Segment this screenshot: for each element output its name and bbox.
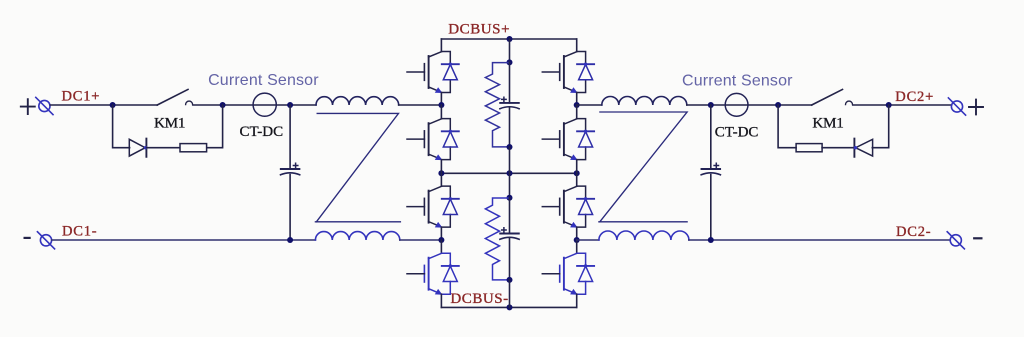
node J3 — [287, 102, 293, 108]
C2 polarity + — [502, 97, 506, 101]
svg-text:DC1-: DC1- — [62, 224, 97, 240]
precharge branch right: wire down from J20 — [778, 105, 796, 148]
capacitor C4 — [701, 169, 720, 175]
filter capacitor C1 branch wire — [289, 105, 291, 240]
Z symbol (right coupled inductor) — [599, 112, 687, 222]
svg-text:Current Sensor: Current Sensor — [682, 72, 793, 89]
svg-text:DC2+: DC2+ — [895, 89, 934, 105]
wire L1 to left leg — [399, 104, 442, 106]
inductor L1 (top left) — [316, 97, 399, 105]
svg-text:CT-DC: CT-DC — [240, 124, 284, 140]
svg-text:CT-DC: CT-DC — [715, 124, 759, 140]
wire DCBUS- rail — [441, 306, 576, 308]
wire right leg to L4 — [577, 239, 599, 241]
wire RC2 center upper — [509, 198, 511, 234]
node J16 — [574, 102, 580, 108]
terminal X1 DC1+ — [36, 97, 53, 114]
IGBT Q7 with anti-parallel diode — [542, 186, 594, 228]
inductor L4 (bottom right) — [599, 231, 689, 240]
wire mid rail to Q7 — [576, 173, 578, 186]
node J6 — [438, 170, 444, 176]
wire DCBUS+ rail — [441, 38, 576, 40]
svg-text:DC2-: DC2- — [896, 224, 931, 240]
switch KM1 right (main contact) — [812, 89, 853, 105]
node J5 — [507, 36, 513, 42]
node J15 — [507, 277, 513, 283]
IGBT Q2 with anti-parallel diode — [407, 119, 459, 161]
precharge branch: wire down from J1 — [113, 105, 130, 148]
terminal X2 DC1- — [37, 232, 54, 249]
wire L2 to left leg — [400, 239, 442, 241]
node J19 — [708, 237, 714, 243]
resistor R4 (precharge, box) — [796, 144, 822, 152]
terminal + sign (DC2+) — [969, 100, 983, 115]
terminal X4 DC2- — [947, 232, 964, 249]
IGBT Q1 with anti-parallel diode — [407, 52, 459, 94]
C4 polarity + — [714, 163, 718, 167]
capacitor C3 (bus bottom) — [500, 234, 519, 240]
wire mid rail to RC2 — [509, 173, 511, 198]
wire right leg to L3 — [577, 104, 602, 106]
svg-text:KM1: KM1 — [154, 115, 185, 132]
svg-text:Current Sensor: Current Sensor — [208, 72, 319, 89]
node J21 — [886, 102, 892, 108]
svg-text:DCBUS-: DCBUS- — [450, 291, 508, 307]
wire resistor up to J2 — [207, 105, 222, 148]
IGBT Q8 with anti-parallel diode — [542, 253, 594, 295]
node J4 — [287, 237, 293, 243]
wire DC1+ terminal to switch — [50, 104, 157, 106]
wire DC1- rail — [52, 239, 316, 241]
wire DCBUS+ to RC1 — [509, 39, 511, 62]
wire diode up to J21 — [872, 105, 888, 148]
capacitor C1 — [281, 169, 300, 175]
node J11 — [438, 237, 444, 243]
resistor R3 (bleeder, zigzag) — [485, 198, 509, 280]
wire RC1 center lower — [509, 108, 511, 148]
filter capacitor C4 branch wire — [710, 105, 712, 240]
terminal X3 DC2+ — [948, 98, 965, 115]
node J14 — [507, 195, 513, 201]
wire Q8 to DCBUS- rail — [576, 294, 578, 307]
wire Q1 to node — [440, 93, 442, 106]
inductor L2 (bottom left) — [315, 232, 399, 240]
wire RC2 center lower — [509, 238, 511, 280]
wire Q4 to DCBUS- rail — [440, 294, 442, 307]
resistor R2 (bleeder, zigzag) — [485, 63, 509, 147]
wire switch to DC2+ terminal — [853, 104, 952, 106]
switch KM1 (main contact) — [157, 89, 192, 105]
current sensor CT-DC (right) — [725, 93, 748, 116]
wire RC2 to DCBUS- rail — [509, 280, 511, 308]
wire L4 to DC2- terminal — [689, 239, 950, 241]
wire mid rail to Q3 — [440, 173, 442, 186]
terminal - sign (DC2-) — [974, 237, 981, 239]
wire Q3 to node — [440, 227, 442, 240]
resistor R1 (precharge, box) — [180, 144, 207, 152]
node J7 — [507, 170, 513, 176]
node J2 — [220, 102, 226, 108]
node J1 — [110, 102, 116, 108]
IGBT Q6 with anti-parallel diode — [542, 119, 594, 161]
wire switch to sensor — [193, 104, 316, 106]
wire Q6 to mid rail — [576, 160, 578, 174]
node J12 — [507, 59, 513, 65]
node J8 — [574, 170, 580, 176]
wire node to Q8 — [576, 240, 578, 253]
wire node to Q2 — [440, 105, 442, 119]
node J17 — [574, 237, 580, 243]
capacitor C2 (bus top) — [500, 103, 519, 109]
Z symbol (left coupled inductor) — [315, 113, 400, 221]
wire node to Q6 — [576, 105, 578, 119]
wire resistor to diode — [822, 147, 854, 149]
wire L3 to sensor section — [687, 104, 812, 106]
wire node to Q4 — [440, 240, 442, 253]
C1 polarity + — [293, 163, 297, 167]
wire diode to resistor — [146, 147, 179, 149]
wire Q7 to node — [576, 227, 578, 240]
terminal + sign (DC1+) — [21, 99, 35, 114]
IGBT Q3 with anti-parallel diode — [407, 186, 459, 228]
node J20 — [775, 102, 781, 108]
inductor L3 (top right) — [602, 97, 687, 106]
svg-text:DC1+: DC1+ — [62, 89, 101, 105]
current sensor CT-DC (left) — [253, 93, 276, 116]
node J10 — [438, 102, 444, 108]
wire mid rail — [441, 172, 576, 174]
wire Q5 to node — [576, 93, 578, 106]
wire stub rail to Q1 — [440, 39, 442, 52]
svg-text:KM1: KM1 — [812, 115, 843, 132]
wire RC1 to mid rail — [509, 147, 511, 173]
node J18 — [708, 102, 714, 108]
node J9 — [507, 304, 513, 310]
svg-text:DCBUS+: DCBUS+ — [448, 22, 510, 38]
terminal - sign (DC1-) — [25, 237, 30, 239]
wire stub rail to Q5 — [576, 39, 578, 52]
node J13 — [507, 144, 513, 150]
IGBT Q5 with anti-parallel diode — [542, 52, 594, 94]
diode D1 (precharge, pointing right) — [129, 139, 146, 157]
C3 polarity + — [502, 228, 506, 232]
IGBT Q4 with anti-parallel diode — [407, 253, 459, 295]
wire RC1 center upper — [509, 62, 511, 103]
wire Q2 to mid rail — [440, 160, 442, 174]
diode D2 (precharge, pointing left) — [854, 139, 872, 157]
